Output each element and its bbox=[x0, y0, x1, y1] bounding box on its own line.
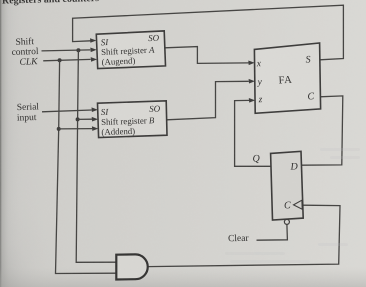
wire: top feedback loop S to SI of A bbox=[73, 5, 344, 60]
clock edge triangle on flip-flop bbox=[294, 200, 303, 209]
wire: vertical1 CLK branch down to AND bbox=[56, 60, 117, 273]
node dot CLK / vertical1 bbox=[58, 58, 62, 62]
shift register B box bbox=[98, 101, 168, 138]
wire: Q of flip-flop to z of FA bbox=[235, 100, 271, 166]
wire: shift control horizontal bbox=[42, 50, 91, 51]
wire: CLK horizontal bbox=[43, 59, 90, 60]
shift register A box bbox=[96, 31, 165, 69]
arrowhead into z bbox=[249, 98, 255, 103]
wire: branch into B row2 bbox=[78, 118, 92, 120]
arrowhead into y bbox=[249, 79, 255, 84]
wire: C of FA to D of flip-flop bbox=[302, 96, 343, 165]
wire: SO of B to y of FA bbox=[167, 81, 249, 120]
arrowhead into B row2 bbox=[92, 117, 98, 122]
arrowhead shift control into A bbox=[90, 48, 96, 53]
arrowhead CLK into A bbox=[91, 57, 97, 62]
full adder FA box bbox=[254, 43, 320, 113]
AND gate bbox=[116, 254, 147, 279]
arrowhead serial input into B bbox=[92, 107, 98, 112]
wire: clear to bubble bbox=[257, 225, 288, 241]
D flip-flop box bbox=[271, 151, 304, 220]
node dot vertical2 / B row2 bbox=[76, 117, 80, 121]
node dot shift-control / vertical2 bbox=[76, 48, 80, 52]
label Shift control bbox=[11, 36, 39, 58]
node dot vertical1 / B row3 bbox=[57, 127, 61, 131]
arrowhead into x bbox=[248, 61, 254, 66]
clear bubble bbox=[284, 219, 289, 224]
arrowhead into B row3 bbox=[92, 126, 98, 131]
wire: vertical2 shift-control branch down to AND bbox=[76, 50, 116, 262]
wire: serial input horizontal bbox=[42, 110, 92, 112]
wire: branch into B row3 bbox=[59, 128, 92, 130]
cut-off page heading "Registers and ..." bbox=[2, 0, 100, 7]
faint ghosting from reverse page bbox=[225, 148, 360, 263]
wire: SO of A to x of FA bbox=[165, 47, 249, 64]
wire: AND output to C of flip-flop bbox=[148, 205, 340, 266]
label Serial input bbox=[17, 102, 40, 123]
arrowhead into SI of A bbox=[90, 38, 96, 43]
